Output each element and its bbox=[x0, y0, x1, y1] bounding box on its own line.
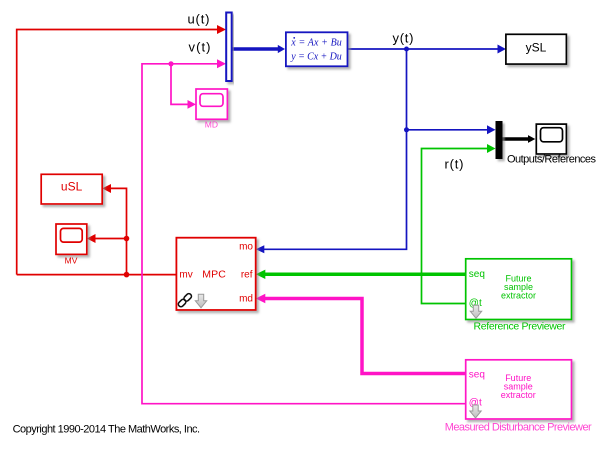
wire: thick green ref from previewer seq bbox=[264, 273, 467, 277]
svg-text:uSL: uSL bbox=[61, 180, 83, 194]
wire: magenta v(t) vertical from previewer bbox=[142, 64, 466, 404]
arrowhead into MPC ref port bbox=[256, 270, 266, 279]
wire: thick blue mux output into state-space bbox=[232, 47, 280, 51]
wire: red mv output horizontal bbox=[17, 274, 177, 276]
arrowhead black into scope bbox=[528, 135, 535, 143]
gray down arrow in Reference Previewer bbox=[470, 305, 481, 318]
svg-text:mv: mv bbox=[179, 270, 192, 281]
svg-text:MV: MV bbox=[65, 256, 78, 266]
svg-text:md: md bbox=[239, 294, 253, 305]
svg-text:v(t): v(t) bbox=[189, 40, 211, 55]
junction dot blue lower bbox=[404, 127, 409, 132]
wire: red branch up to uSL bbox=[106, 188, 127, 274]
ySL block bbox=[506, 34, 567, 64]
wire: magenta branch to MD scope bbox=[171, 64, 193, 105]
arrowhead into mux v port bbox=[217, 59, 226, 68]
output mux block (black bar) bbox=[496, 121, 503, 159]
arrowhead into ySL bbox=[498, 45, 506, 54]
svg-text:Measured Disturbance Previewer: Measured Disturbance Previewer bbox=[445, 422, 592, 434]
gray down arrow in MPC bbox=[195, 294, 206, 308]
arrowhead into MD scope bbox=[188, 100, 197, 109]
svg-text:y = Cx + Du: y = Cx + Du bbox=[290, 52, 342, 63]
Reference Previewer block (green) bbox=[466, 259, 572, 320]
svg-text:Reference Previewer: Reference Previewer bbox=[474, 321, 567, 333]
svg-text:u(t): u(t) bbox=[188, 12, 210, 27]
wire: blue y(t) from state-space to ySL bbox=[348, 48, 503, 50]
wire: thick black from output mux to scope bbox=[503, 137, 530, 141]
MPC block bbox=[176, 238, 255, 310]
svg-text:r(t): r(t) bbox=[445, 157, 464, 172]
svg-text:MD: MD bbox=[205, 119, 218, 129]
svg-text:Copyright 1990-2014 The MathWo: Copyright 1990-2014 The MathWorks, Inc. bbox=[13, 424, 201, 436]
Measured Disturbance Previewer block (magenta) bbox=[466, 360, 572, 419]
wire: red branch to MV scope bbox=[91, 238, 127, 240]
junction dot red at MV branch bbox=[124, 236, 130, 242]
arrowhead thick blue into state-space bbox=[278, 45, 285, 53]
Outputs/References scope block bbox=[507, 124, 597, 165]
svg-text:seq: seq bbox=[469, 370, 485, 381]
state-space block x'=Ax+Bu bbox=[286, 32, 348, 66]
svg-text:seq: seq bbox=[469, 269, 485, 280]
arrowhead green into output mux bbox=[487, 144, 496, 153]
wire: thick magenta md from previewer seq bbox=[264, 299, 467, 374]
svg-text:MPC: MPC bbox=[202, 269, 226, 281]
MD scope block bbox=[196, 89, 227, 129]
svg-text:ref: ref bbox=[241, 270, 253, 281]
svg-text:mo: mo bbox=[239, 242, 253, 253]
junction dot red lower bbox=[124, 272, 130, 278]
arrowhead into mux u port bbox=[217, 25, 226, 34]
svg-text:ySL: ySL bbox=[526, 41, 547, 55]
chain link icon in MPC bbox=[177, 293, 192, 308]
arrowhead blue into MPC mo port bbox=[256, 245, 265, 253]
uSL block bbox=[41, 174, 102, 204]
arrowhead blue into output mux bbox=[487, 125, 496, 134]
mux block (blue bar) bbox=[226, 13, 232, 82]
wire: thin green r(t) from previewer @t to output mux bbox=[422, 149, 492, 304]
svg-text:extractor: extractor bbox=[501, 291, 536, 301]
arrowhead into MV scope bbox=[87, 234, 96, 243]
wire: blue branch to output mux bbox=[407, 129, 492, 131]
svg-text:extractor: extractor bbox=[501, 390, 536, 400]
wire: red u(t) horizontal into mux bbox=[17, 30, 222, 275]
svg-text:y(t): y(t) bbox=[393, 31, 414, 46]
svg-text:Outputs/References: Outputs/References bbox=[507, 154, 597, 166]
junction dot magenta bbox=[168, 61, 173, 66]
junction dot blue upper bbox=[404, 47, 409, 52]
MV scope block bbox=[56, 224, 87, 266]
gray down arrow in Measured Disturbance Previewer bbox=[470, 405, 481, 418]
arrowhead into MPC md port bbox=[256, 294, 266, 303]
arrowhead into uSL bbox=[102, 184, 111, 193]
wire: blue vertical branch down bbox=[263, 49, 407, 249]
svg-text:x = Ax + Bu: x = Ax + Bu bbox=[290, 37, 342, 48]
